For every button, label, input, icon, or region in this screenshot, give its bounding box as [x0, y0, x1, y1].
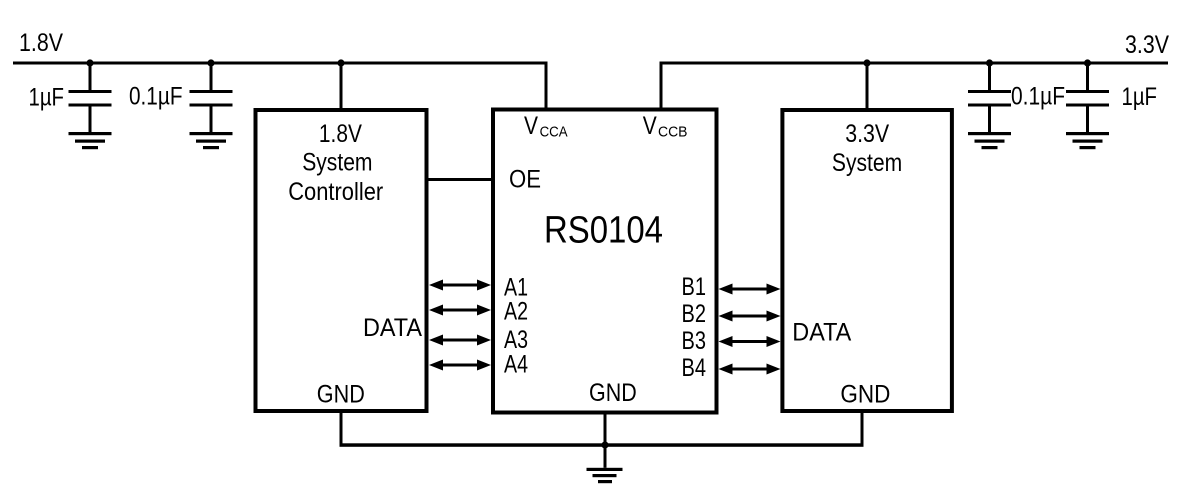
- wire ground bus: [340, 443, 864, 447]
- svg-text:V: V: [643, 112, 657, 140]
- svg-text:1.8V: 1.8V: [319, 120, 362, 148]
- wire system GND to bus: [861, 413, 864, 444]
- ground symbol C4: [1066, 132, 1109, 149]
- block 1.8V System Controller box: [256, 110, 427, 411]
- svg-text:OE: OE: [509, 166, 541, 194]
- svg-text:B3: B3: [682, 327, 707, 355]
- svg-text:System: System: [832, 149, 902, 177]
- node junction dot rail/C1: [86, 59, 93, 66]
- bus arrow A4: [429, 360, 491, 371]
- bus arrow B2: [719, 311, 781, 322]
- ground symbol C1: [69, 132, 112, 149]
- bus arrow A3: [429, 335, 491, 346]
- node junction dot ground bus: [601, 441, 608, 448]
- svg-text:1µF: 1µF: [1122, 83, 1158, 111]
- svg-text:B4: B4: [682, 354, 707, 382]
- node junction dot rail/C2: [207, 59, 214, 66]
- wire OE from controller to RS0104: [429, 178, 492, 181]
- svg-text:System: System: [302, 149, 372, 177]
- capacitor C4 1uF: [1066, 65, 1109, 133]
- wire RS0104 GND to bus: [604, 413, 607, 444]
- IC RS0104 box: [493, 110, 717, 413]
- svg-text:1.8V: 1.8V: [19, 29, 63, 57]
- svg-text:DATA: DATA: [363, 314, 422, 342]
- svg-text:CCB: CCB: [658, 124, 688, 141]
- bus arrow B4: [719, 364, 781, 375]
- svg-text:0.1µF: 0.1µF: [129, 83, 183, 111]
- node junction dot rail/3.3V system: [863, 59, 870, 66]
- wire bus to ground symbol: [604, 447, 607, 468]
- ground symbol C3: [968, 132, 1011, 149]
- svg-text:3.3V: 3.3V: [845, 120, 889, 148]
- block 3.3V System box: [782, 110, 952, 411]
- node junction dot rail/controller: [337, 59, 344, 66]
- svg-text:A2: A2: [504, 298, 528, 326]
- capacitor C3 0.1uF: [968, 65, 1011, 133]
- ground symbol C2: [190, 132, 233, 149]
- svg-text:1µF: 1µF: [29, 84, 65, 112]
- svg-text:0.1µF: 0.1µF: [1011, 83, 1065, 111]
- wire rail to VCCA pin: [545, 62, 548, 109]
- bus arrow B1: [719, 284, 781, 295]
- node junction dot rail/C3: [986, 59, 993, 66]
- bus arrow B3: [719, 336, 781, 347]
- svg-text:GND: GND: [840, 381, 890, 409]
- wire rail to 3.3V system box: [866, 65, 869, 109]
- svg-text:B2: B2: [682, 300, 707, 328]
- svg-text:GND: GND: [589, 379, 637, 407]
- svg-text:B1: B1: [682, 273, 707, 301]
- svg-text:RS0104: RS0104: [544, 210, 663, 252]
- capacitor C1 1uF: [69, 65, 112, 133]
- wire rail to controller box: [340, 65, 343, 109]
- ground symbol (main): [587, 468, 623, 483]
- wire controller GND to bus: [340, 413, 343, 444]
- svg-text:3.3V: 3.3V: [1125, 31, 1169, 59]
- wire 3.3V power rail: [660, 62, 1169, 65]
- capacitor C2 0.1uF: [190, 65, 233, 133]
- svg-text:A4: A4: [504, 351, 528, 379]
- svg-text:DATA: DATA: [792, 319, 851, 347]
- svg-text:V: V: [524, 112, 538, 140]
- pin label VCCB: [643, 112, 688, 141]
- svg-text:CCA: CCA: [540, 124, 568, 141]
- pin label VCCA: [524, 112, 568, 141]
- svg-text:GND: GND: [317, 381, 365, 409]
- bus arrow A2: [429, 305, 491, 316]
- wire 1.8V power rail: [13, 62, 548, 65]
- wire rail to VCCB pin: [660, 62, 663, 109]
- node junction dot rail/C4: [1084, 59, 1091, 66]
- svg-text:Controller: Controller: [288, 178, 383, 206]
- bus arrow A1: [429, 280, 491, 291]
